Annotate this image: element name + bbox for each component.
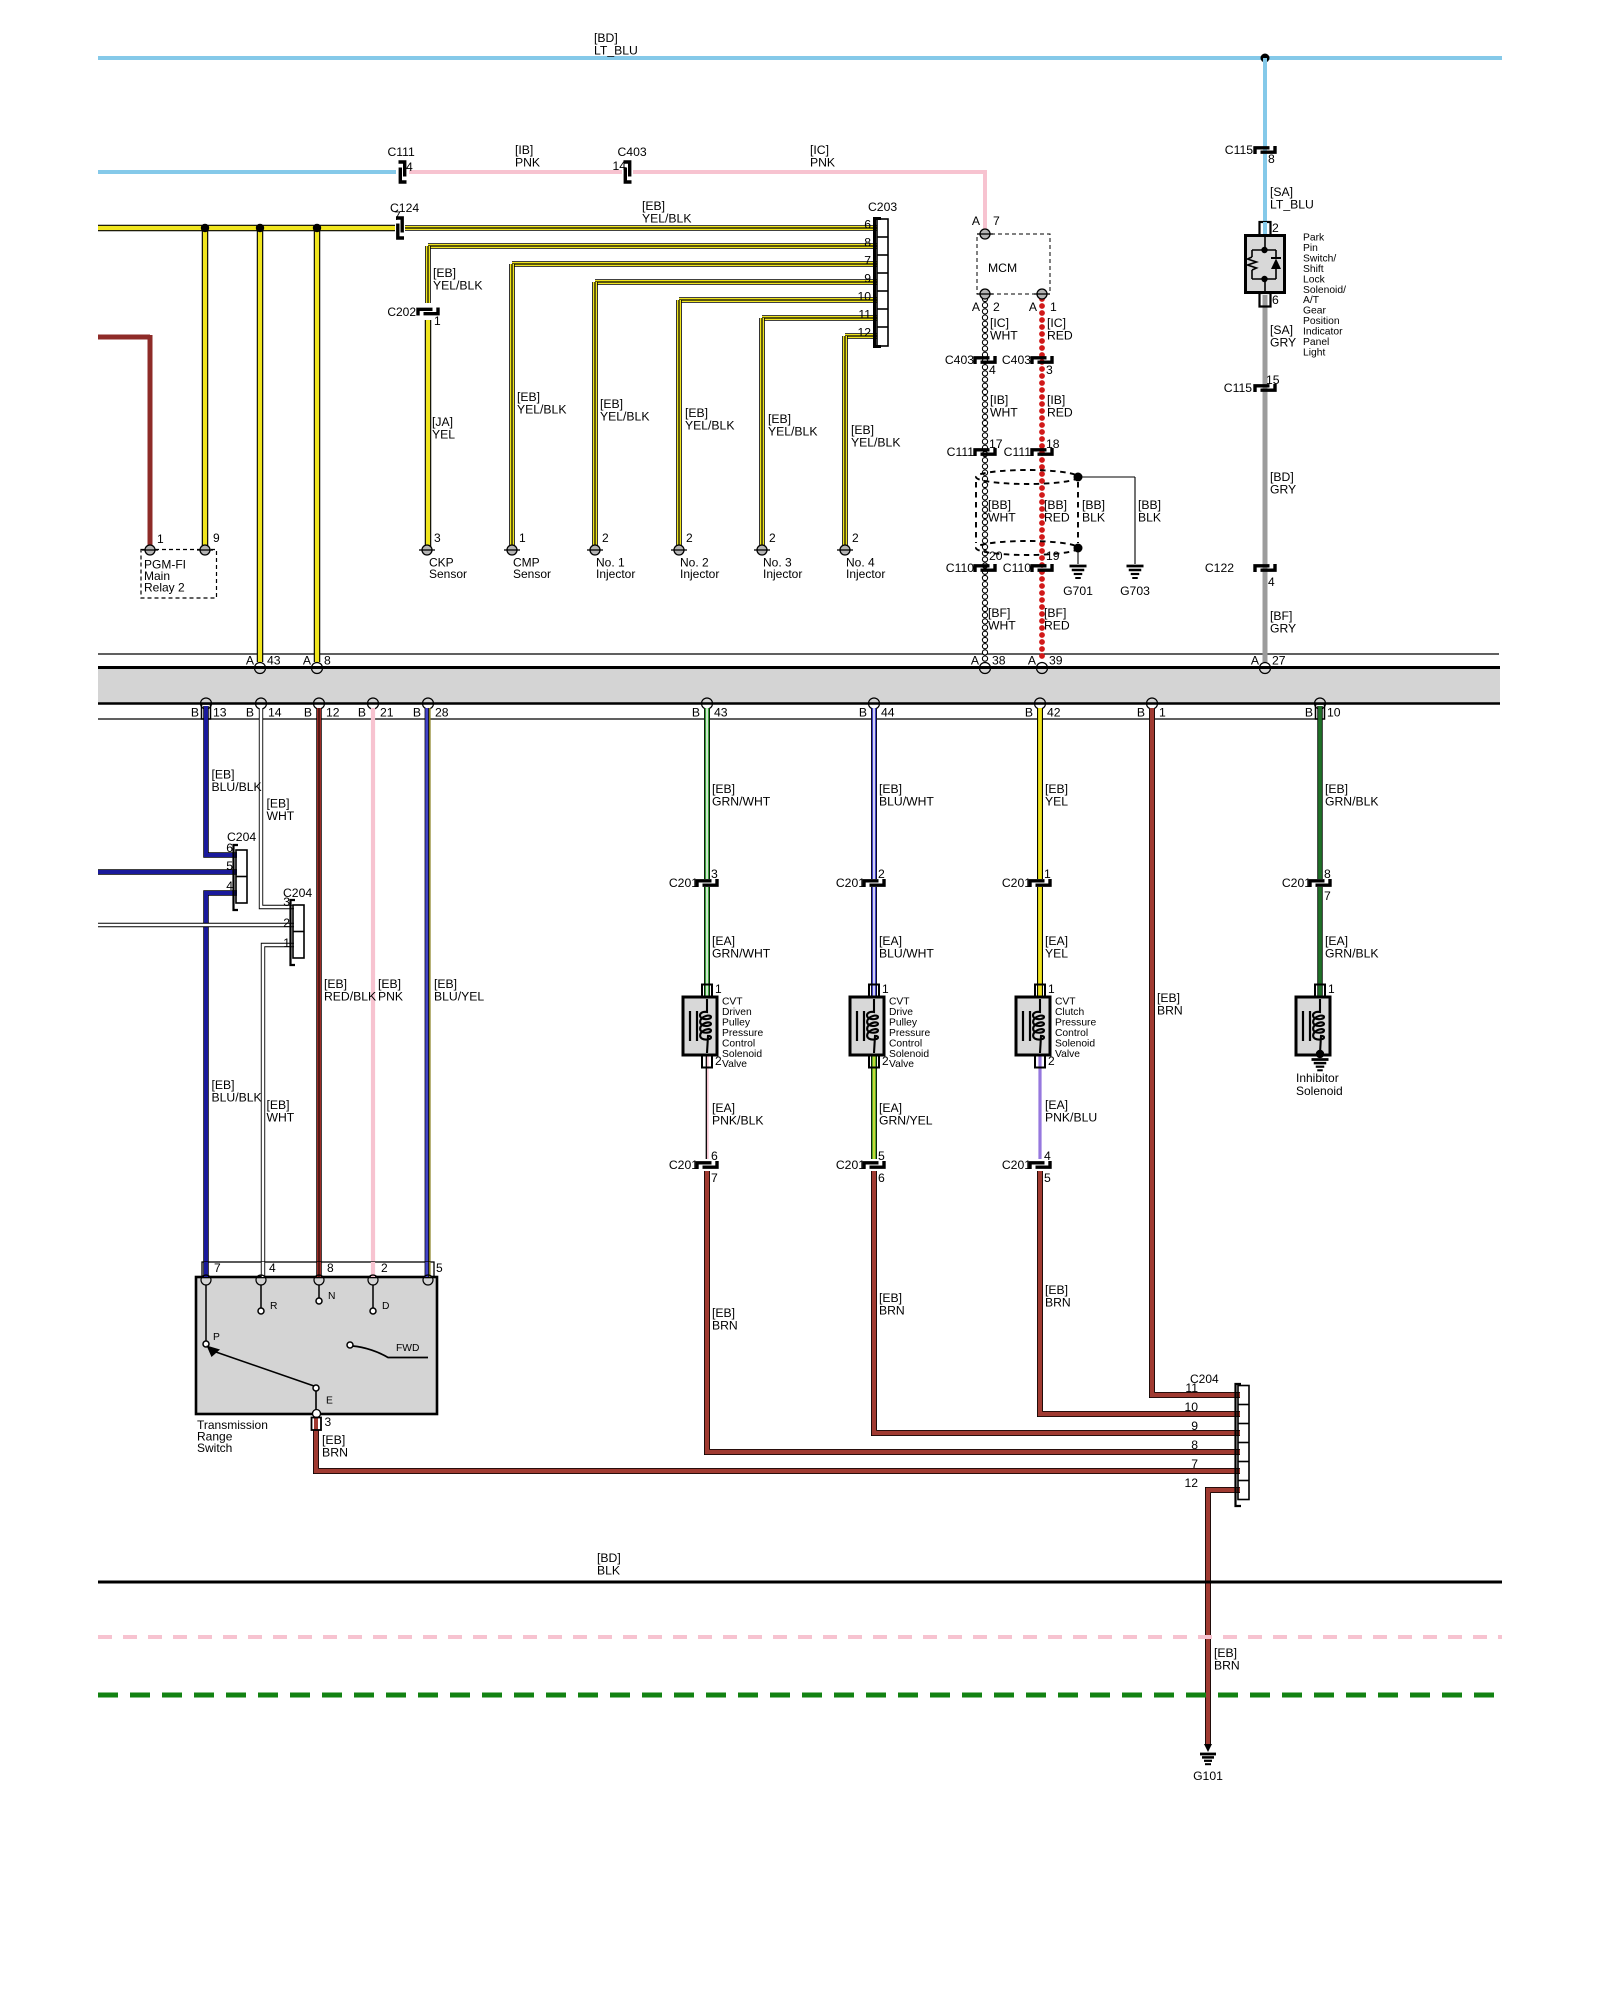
svg-text:Shift: Shift <box>1303 264 1324 275</box>
svg-text:RED: RED <box>1047 329 1073 343</box>
svg-text:7: 7 <box>394 209 401 223</box>
svg-text:6: 6 <box>878 1171 885 1185</box>
svg-text:2: 2 <box>602 531 609 545</box>
svg-text:Pin: Pin <box>1303 243 1318 254</box>
svg-text:7: 7 <box>993 214 1000 228</box>
svg-text:MCM: MCM <box>988 261 1017 275</box>
svg-text:2: 2 <box>878 867 885 881</box>
svg-text:Solenoid: Solenoid <box>722 1049 762 1060</box>
svg-text:44: 44 <box>881 706 895 720</box>
svg-text:B: B <box>246 706 254 720</box>
svg-text:6: 6 <box>226 841 233 855</box>
svg-text:5: 5 <box>436 1261 443 1275</box>
svg-text:13: 13 <box>213 706 227 720</box>
svg-text:8: 8 <box>324 654 331 668</box>
svg-text:9: 9 <box>1191 1419 1198 1433</box>
svg-text:GRY: GRY <box>1270 336 1296 350</box>
svg-text:YEL: YEL <box>432 428 455 442</box>
svg-text:28: 28 <box>435 706 449 720</box>
svg-text:4: 4 <box>1044 1149 1051 1163</box>
svg-text:A: A <box>1028 654 1037 668</box>
svg-text:Solenoid: Solenoid <box>1055 1038 1095 1049</box>
svg-text:YEL/BLK: YEL/BLK <box>433 279 482 293</box>
svg-text:6: 6 <box>864 218 871 232</box>
svg-text:Injector: Injector <box>596 567 635 581</box>
svg-text:12: 12 <box>1184 1476 1198 1490</box>
svg-text:1: 1 <box>157 532 164 546</box>
svg-text:YEL/BLK: YEL/BLK <box>768 425 817 439</box>
svg-text:BLK: BLK <box>1138 511 1161 525</box>
svg-text:19: 19 <box>1046 549 1060 563</box>
svg-text:Lock: Lock <box>1303 274 1326 285</box>
svg-text:CVT: CVT <box>1055 997 1076 1008</box>
svg-text:8: 8 <box>1268 152 1275 166</box>
svg-text:A: A <box>972 214 981 228</box>
svg-text:Inhibitor: Inhibitor <box>1296 1071 1339 1085</box>
svg-text:PNK/BLK: PNK/BLK <box>712 1114 763 1128</box>
svg-text:2: 2 <box>769 531 776 545</box>
svg-text:2: 2 <box>381 1261 388 1275</box>
svg-text:43: 43 <box>267 654 281 668</box>
svg-text:A: A <box>303 654 312 668</box>
svg-text:18: 18 <box>1046 437 1060 451</box>
svg-text:B: B <box>304 706 312 720</box>
svg-text:C111: C111 <box>947 445 975 459</box>
svg-text:A: A <box>972 300 981 314</box>
svg-text:BRN: BRN <box>879 1304 905 1318</box>
svg-text:Pressure: Pressure <box>889 1028 930 1039</box>
svg-text:4: 4 <box>989 363 996 377</box>
svg-text:C201: C201 <box>1282 876 1311 890</box>
svg-text:4: 4 <box>226 879 233 893</box>
svg-text:Valve: Valve <box>889 1059 914 1070</box>
svg-text:BLK: BLK <box>597 1564 620 1578</box>
svg-text:BRN: BRN <box>712 1319 738 1333</box>
svg-text:Sensor: Sensor <box>429 567 467 581</box>
svg-text:C403: C403 <box>1002 353 1031 367</box>
svg-text:4: 4 <box>1268 575 1275 589</box>
svg-text:RED: RED <box>1047 406 1073 420</box>
svg-text:YEL/BLK: YEL/BLK <box>517 403 566 417</box>
svg-text:YEL/BLK: YEL/BLK <box>600 410 649 424</box>
svg-text:A/T: A/T <box>1303 295 1320 306</box>
svg-text:7: 7 <box>864 254 871 268</box>
svg-text:3: 3 <box>1046 363 1053 377</box>
svg-text:PNK/BLU: PNK/BLU <box>1045 1111 1097 1125</box>
svg-text:10: 10 <box>1327 706 1341 720</box>
svg-text:43: 43 <box>714 706 728 720</box>
svg-text:A: A <box>1029 300 1038 314</box>
svg-text:CVT: CVT <box>722 997 743 1008</box>
svg-text:RED: RED <box>1044 619 1070 633</box>
svg-text:LT_BLU: LT_BLU <box>1270 198 1314 212</box>
svg-text:GRN/BLK: GRN/BLK <box>1325 947 1379 961</box>
svg-text:14: 14 <box>268 706 282 720</box>
svg-text:GRN/WHT: GRN/WHT <box>712 947 771 961</box>
svg-text:WHT: WHT <box>267 1111 295 1125</box>
svg-text:11: 11 <box>858 308 871 322</box>
svg-text:3: 3 <box>325 1415 332 1429</box>
svg-text:C201: C201 <box>836 876 865 890</box>
svg-text:PNK: PNK <box>810 156 835 170</box>
svg-text:Pressure: Pressure <box>722 1028 763 1039</box>
svg-text:15: 15 <box>1266 373 1280 387</box>
svg-text:Injector: Injector <box>846 567 885 581</box>
svg-text:C403: C403 <box>945 353 974 367</box>
svg-text:B: B <box>1025 706 1033 720</box>
svg-text:4: 4 <box>406 160 413 174</box>
svg-text:Control: Control <box>722 1038 755 1049</box>
svg-text:C201: C201 <box>669 1158 698 1172</box>
svg-text:Solenoid: Solenoid <box>889 1049 929 1060</box>
svg-text:WHT: WHT <box>988 619 1016 633</box>
svg-text:7: 7 <box>1324 889 1331 903</box>
svg-text:C111: C111 <box>388 145 416 159</box>
svg-text:BLU/WHT: BLU/WHT <box>879 795 934 809</box>
svg-text:YEL/BLK: YEL/BLK <box>685 419 734 433</box>
svg-text:YEL: YEL <box>1045 947 1068 961</box>
svg-text:B: B <box>358 706 366 720</box>
svg-text:GRY: GRY <box>1270 483 1296 497</box>
svg-text:Solenoid/: Solenoid/ <box>1303 285 1346 296</box>
svg-text:8: 8 <box>1191 1438 1198 1452</box>
svg-text:B: B <box>191 706 199 720</box>
svg-text:GRN/BLK: GRN/BLK <box>1325 795 1379 809</box>
svg-text:1: 1 <box>1159 706 1166 720</box>
svg-text:C115: C115 <box>1225 143 1253 157</box>
svg-text:G701: G701 <box>1063 584 1093 598</box>
svg-text:D: D <box>382 1301 389 1312</box>
svg-text:YEL/BLK: YEL/BLK <box>851 436 900 450</box>
svg-text:39: 39 <box>1049 654 1063 668</box>
svg-text:BLU/BLK: BLU/BLK <box>212 1091 262 1105</box>
svg-text:FWD: FWD <box>396 1343 419 1354</box>
svg-text:C201: C201 <box>669 876 698 890</box>
svg-text:2: 2 <box>882 1054 889 1068</box>
svg-text:WHT: WHT <box>990 406 1018 420</box>
svg-text:9: 9 <box>213 531 220 545</box>
svg-text:B: B <box>692 706 700 720</box>
svg-text:2: 2 <box>686 531 693 545</box>
svg-text:2: 2 <box>283 916 290 930</box>
svg-text:Indicator: Indicator <box>1303 327 1343 338</box>
svg-text:6: 6 <box>1272 293 1279 307</box>
svg-text:GRY: GRY <box>1270 622 1296 636</box>
svg-text:1: 1 <box>283 936 290 950</box>
svg-text:C115: C115 <box>1224 381 1252 395</box>
svg-text:2: 2 <box>993 300 1000 314</box>
svg-text:Clutch: Clutch <box>1055 1007 1084 1018</box>
svg-text:C111: C111 <box>1004 445 1032 459</box>
svg-text:7: 7 <box>1191 1457 1198 1471</box>
svg-text:B: B <box>859 706 867 720</box>
svg-text:4: 4 <box>269 1261 276 1275</box>
svg-text:G703: G703 <box>1120 584 1150 598</box>
svg-text:1: 1 <box>1328 982 1335 996</box>
svg-text:38: 38 <box>992 654 1006 668</box>
svg-text:1: 1 <box>434 314 441 328</box>
svg-text:8: 8 <box>327 1261 334 1275</box>
svg-text:Injector: Injector <box>680 567 719 581</box>
svg-text:A: A <box>971 654 980 668</box>
svg-text:42: 42 <box>1047 706 1061 720</box>
svg-text:2: 2 <box>1048 1054 1055 1068</box>
svg-text:1: 1 <box>1044 867 1051 881</box>
svg-text:B: B <box>1137 706 1145 720</box>
svg-text:BLK: BLK <box>1082 511 1105 525</box>
svg-text:C110: C110 <box>1003 561 1031 575</box>
svg-text:1: 1 <box>1048 982 1055 996</box>
svg-text:WHT: WHT <box>990 329 1018 343</box>
svg-text:BRN: BRN <box>1157 1004 1183 1018</box>
svg-text:Position: Position <box>1303 316 1340 327</box>
svg-text:BRN: BRN <box>1214 1659 1240 1673</box>
svg-text:Control: Control <box>889 1038 922 1049</box>
svg-text:B: B <box>413 706 421 720</box>
svg-text:8: 8 <box>1324 867 1331 881</box>
svg-text:8: 8 <box>864 236 871 250</box>
svg-text:9: 9 <box>864 272 871 286</box>
svg-text:12: 12 <box>857 326 871 340</box>
svg-text:R: R <box>270 1301 277 1312</box>
svg-text:Switch/: Switch/ <box>1303 253 1336 264</box>
svg-text:3: 3 <box>434 531 441 545</box>
svg-text:10: 10 <box>1184 1400 1198 1414</box>
svg-text:C403: C403 <box>618 145 647 159</box>
svg-text:YEL/BLK: YEL/BLK <box>642 212 691 226</box>
svg-text:A: A <box>246 654 255 668</box>
svg-text:LT_BLU: LT_BLU <box>594 44 638 58</box>
svg-text:7: 7 <box>214 1261 221 1275</box>
svg-text:Driven: Driven <box>722 1007 752 1018</box>
svg-text:GRN/WHT: GRN/WHT <box>712 795 771 809</box>
svg-text:N: N <box>328 1291 335 1302</box>
svg-text:Panel: Panel <box>1303 337 1329 348</box>
svg-text:3: 3 <box>283 895 290 909</box>
svg-text:BLU/BLK: BLU/BLK <box>212 780 262 794</box>
svg-text:5: 5 <box>226 859 233 873</box>
svg-text:Pulley: Pulley <box>889 1017 918 1028</box>
svg-text:Park: Park <box>1303 233 1325 244</box>
svg-text:Gear: Gear <box>1303 306 1326 317</box>
svg-text:27: 27 <box>1272 654 1286 668</box>
svg-text:12: 12 <box>326 706 340 720</box>
svg-text:C203: C203 <box>868 200 897 214</box>
svg-text:C122: C122 <box>1205 561 1234 575</box>
svg-text:11: 11 <box>1185 1381 1198 1395</box>
svg-text:Drive: Drive <box>889 1007 913 1018</box>
svg-text:C202: C202 <box>387 305 416 319</box>
svg-text:1: 1 <box>1050 300 1057 314</box>
svg-text:C201: C201 <box>1002 876 1031 890</box>
svg-text:14: 14 <box>612 159 626 173</box>
svg-text:PNK: PNK <box>378 990 403 1004</box>
svg-text:Pulley: Pulley <box>722 1017 751 1028</box>
svg-text:6: 6 <box>711 1149 718 1163</box>
svg-text:B: B <box>1305 706 1313 720</box>
svg-text:Light: Light <box>1303 347 1325 358</box>
svg-text:E: E <box>326 1396 333 1407</box>
svg-text:BRN: BRN <box>322 1446 348 1460</box>
svg-text:C201: C201 <box>836 1158 865 1172</box>
svg-text:10: 10 <box>857 290 871 304</box>
svg-text:Switch: Switch <box>197 1441 232 1455</box>
svg-text:WHT: WHT <box>988 511 1016 525</box>
svg-text:BRN: BRN <box>1045 1296 1071 1310</box>
svg-text:G101: G101 <box>1193 1769 1223 1783</box>
svg-text:1: 1 <box>882 982 889 996</box>
svg-text:PNK: PNK <box>515 156 540 170</box>
svg-text:C201: C201 <box>1002 1158 1031 1172</box>
svg-text:7: 7 <box>711 1171 718 1185</box>
svg-text:GRN/YEL: GRN/YEL <box>879 1114 933 1128</box>
svg-text:A: A <box>1251 654 1260 668</box>
svg-text:BLU/WHT: BLU/WHT <box>879 947 934 961</box>
svg-text:2: 2 <box>1272 221 1279 235</box>
svg-text:1: 1 <box>715 982 722 996</box>
svg-text:Injector: Injector <box>763 567 802 581</box>
svg-text:2: 2 <box>715 1054 722 1068</box>
svg-text:2: 2 <box>852 531 859 545</box>
svg-text:Pressure: Pressure <box>1055 1017 1096 1028</box>
svg-text:17: 17 <box>989 437 1003 451</box>
svg-text:YEL: YEL <box>1045 795 1068 809</box>
svg-text:RED: RED <box>1044 511 1070 525</box>
svg-text:BLU/YEL: BLU/YEL <box>434 990 484 1004</box>
svg-text:Valve: Valve <box>722 1059 747 1070</box>
svg-text:Relay 2: Relay 2 <box>144 581 185 595</box>
svg-text:CVT: CVT <box>889 997 910 1008</box>
svg-text:Valve: Valve <box>1055 1049 1080 1060</box>
svg-text:C110: C110 <box>946 561 974 575</box>
svg-text:Solenoid: Solenoid <box>1296 1084 1343 1098</box>
svg-text:3: 3 <box>711 867 718 881</box>
svg-text:21: 21 <box>380 706 394 720</box>
svg-text:P: P <box>213 1332 220 1343</box>
svg-text:5: 5 <box>878 1149 885 1163</box>
svg-text:20: 20 <box>989 549 1003 563</box>
svg-text:1: 1 <box>519 531 526 545</box>
svg-text:Control: Control <box>1055 1028 1088 1039</box>
svg-text:5: 5 <box>1044 1171 1051 1185</box>
svg-text:Sensor: Sensor <box>513 567 551 581</box>
svg-text:WHT: WHT <box>267 809 295 823</box>
svg-text:RED/BLK: RED/BLK <box>324 990 376 1004</box>
